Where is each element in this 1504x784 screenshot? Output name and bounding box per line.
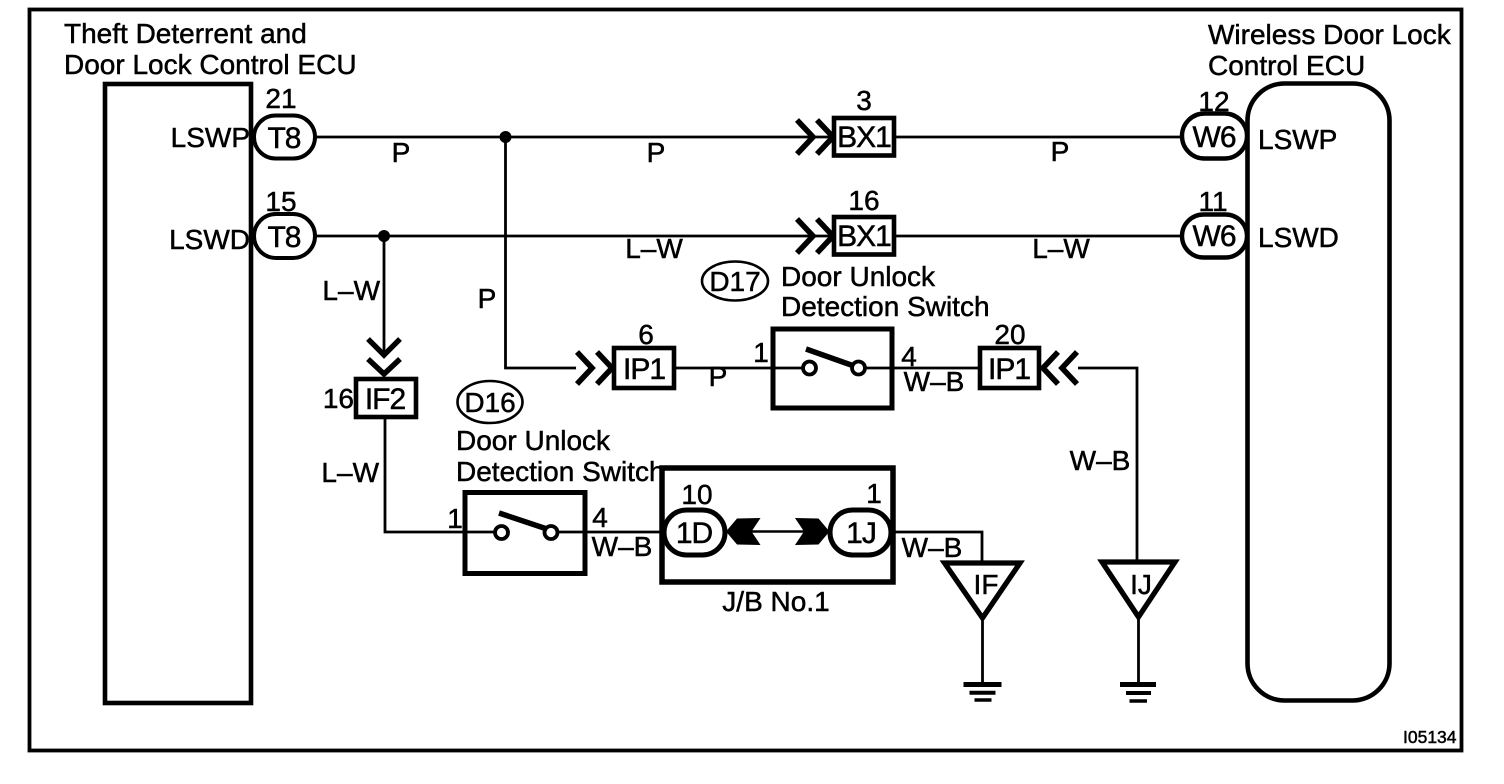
svg-text:IP1: IP1 bbox=[623, 353, 665, 386]
svg-text:Door Unlock: Door Unlock bbox=[456, 425, 611, 456]
svg-text:1D: 1D bbox=[676, 517, 713, 550]
svg-text:W–B: W–B bbox=[902, 532, 963, 563]
connector 1J pin 1 bbox=[830, 510, 891, 555]
ground connector triangle IJ bbox=[1102, 562, 1175, 617]
svg-text:1: 1 bbox=[866, 478, 882, 509]
svg-text:P: P bbox=[1051, 136, 1070, 167]
wire LSWP row (P) from T8-21 to W6-12 bbox=[315, 136, 1182, 139]
harness chevrons before BX1 pin 3 bbox=[797, 120, 833, 154]
harness chevrons before IP1 pin 6 bbox=[577, 352, 612, 384]
connector BX1 pin 16 bbox=[834, 217, 894, 255]
svg-text:Theft Deterrent and: Theft Deterrent and bbox=[64, 18, 307, 49]
wire from D16 pin 4 to J/B 1D bbox=[585, 531, 664, 534]
svg-text:BX1: BX1 bbox=[837, 121, 891, 154]
label: Theft Deterrent and Door Lock Control ECU bbox=[64, 18, 357, 80]
svg-text:IJ: IJ bbox=[1130, 569, 1152, 600]
connector 1D pin 10 bbox=[664, 510, 725, 555]
svg-text:IF: IF bbox=[974, 569, 999, 600]
svg-text:20: 20 bbox=[994, 319, 1025, 350]
svg-text:LSWD: LSWD bbox=[1258, 222, 1339, 253]
oval label D16 bbox=[458, 381, 523, 423]
svg-text:D17: D17 bbox=[709, 266, 760, 297]
svg-text:3: 3 bbox=[856, 85, 872, 116]
svg-text:10: 10 bbox=[681, 479, 712, 510]
wire from IF triangle to ground bbox=[981, 618, 984, 682]
connector IF2 pin 16 bbox=[356, 379, 416, 417]
svg-text:D16: D16 bbox=[464, 387, 515, 418]
svg-text:W–B: W–B bbox=[1070, 445, 1131, 476]
svg-text:LSWP: LSWP bbox=[171, 122, 250, 153]
svg-text:L–W: L–W bbox=[625, 233, 683, 264]
harness chevrons (down) before IF2 bbox=[368, 339, 400, 374]
wire L-W branch from LSWD junction down to IF2 bbox=[383, 236, 386, 352]
label: Wireless Door Lock Control ECU bbox=[1208, 19, 1452, 81]
wire P branch from LSWP junction down to IP1 pin 6 bbox=[506, 137, 577, 368]
svg-text:Wireless Door Lock: Wireless Door Lock bbox=[1208, 19, 1452, 50]
svg-text:W–B: W–B bbox=[904, 366, 965, 397]
svg-text:1J: 1J bbox=[846, 517, 876, 550]
svg-text:T8: T8 bbox=[267, 221, 300, 254]
wire from IF2 down and right to D16 switch pin 1 bbox=[385, 417, 465, 532]
ground symbol (IJ) bbox=[1120, 685, 1156, 702]
svg-text:IF2: IF2 bbox=[365, 383, 406, 416]
svg-text:L–W: L–W bbox=[1032, 233, 1090, 264]
label: Door Unlock Detection Switch (D16) bbox=[456, 425, 665, 487]
svg-text:IP1: IP1 bbox=[988, 353, 1030, 386]
connector BX1 pin 3 bbox=[834, 118, 894, 156]
switch D16: Door Unlock Detection Switch bbox=[465, 493, 585, 574]
svg-text:P: P bbox=[709, 361, 728, 392]
svg-text:W–B: W–B bbox=[592, 531, 653, 562]
junction on LSWP wire bbox=[500, 131, 512, 143]
svg-text:LSWP: LSWP bbox=[1258, 124, 1337, 155]
svg-text:L–W: L–W bbox=[322, 275, 380, 306]
left ECU box: Theft Deterrent and Door Lock Control ECU bbox=[105, 84, 251, 703]
junction block J/B No.1 bbox=[662, 468, 893, 582]
wire LSWD row (L-W) from T8-15 to W6-11 bbox=[315, 235, 1182, 238]
svg-text:W6: W6 bbox=[1193, 220, 1236, 253]
svg-text:Control ECU: Control ECU bbox=[1208, 50, 1365, 81]
connector T8 pin 21 bbox=[254, 116, 315, 159]
svg-text:P: P bbox=[478, 283, 497, 314]
svg-text:16: 16 bbox=[323, 383, 354, 414]
svg-text:I05134: I05134 bbox=[1403, 727, 1457, 747]
wire from IJ triangle to ground bbox=[1137, 617, 1140, 682]
svg-text:16: 16 bbox=[848, 185, 879, 216]
connector W6 pin 11 bbox=[1182, 215, 1247, 258]
label: Door Unlock Detection Switch (D17) bbox=[781, 261, 990, 322]
ground symbol (IF) bbox=[964, 685, 1002, 701]
svg-text:LSWD: LSWD bbox=[169, 224, 250, 255]
svg-text:P: P bbox=[392, 137, 411, 168]
wire from IP1-20 chevrons to ground IJ bbox=[1078, 368, 1137, 561]
svg-text:J/B No.1: J/B No.1 bbox=[722, 586, 829, 617]
wire from 1J to ground IF bbox=[891, 532, 982, 562]
svg-text:4: 4 bbox=[592, 502, 608, 533]
svg-text:Door Unlock: Door Unlock bbox=[781, 261, 936, 292]
svg-text:1: 1 bbox=[447, 503, 463, 534]
oval label D17 bbox=[702, 262, 768, 301]
right ECU box: Wireless Door Lock Control ECU bbox=[1248, 84, 1390, 701]
svg-text:21: 21 bbox=[265, 83, 296, 114]
svg-text:Detection Switch: Detection Switch bbox=[456, 456, 665, 487]
connector W6 pin 12 bbox=[1182, 114, 1247, 159]
connector T8 pin 15 bbox=[254, 214, 315, 258]
connector IP1 pin 20 bbox=[980, 348, 1039, 388]
svg-text:1: 1 bbox=[753, 337, 769, 368]
svg-text:P: P bbox=[647, 137, 666, 168]
junction on LSWD wire bbox=[378, 230, 390, 242]
wire from IP1-6 to D17 switch pin 1 bbox=[674, 367, 773, 370]
svg-text:W6: W6 bbox=[1193, 121, 1236, 154]
harness chevrons after IP1 pin 20 bbox=[1043, 352, 1077, 384]
harness chevrons before BX1 pin 16 bbox=[797, 219, 833, 253]
svg-text:Detection Switch: Detection Switch bbox=[781, 291, 990, 322]
wire from D17 pin 4 to IP1 pin 20 bbox=[892, 367, 980, 370]
svg-text:T8: T8 bbox=[267, 122, 300, 155]
switch D17: Door Unlock Detection Switch bbox=[773, 329, 892, 408]
svg-text:6: 6 bbox=[638, 319, 654, 350]
svg-text:BX1: BX1 bbox=[837, 220, 891, 253]
svg-text:Door Lock Control ECU: Door Lock Control ECU bbox=[64, 49, 357, 80]
svg-text:L–W: L–W bbox=[321, 457, 379, 488]
ground connector triangle IF bbox=[945, 563, 1021, 618]
internal bus arrows inside J/B No.1 bbox=[726, 518, 830, 545]
connector IP1 pin 6 bbox=[614, 348, 674, 388]
